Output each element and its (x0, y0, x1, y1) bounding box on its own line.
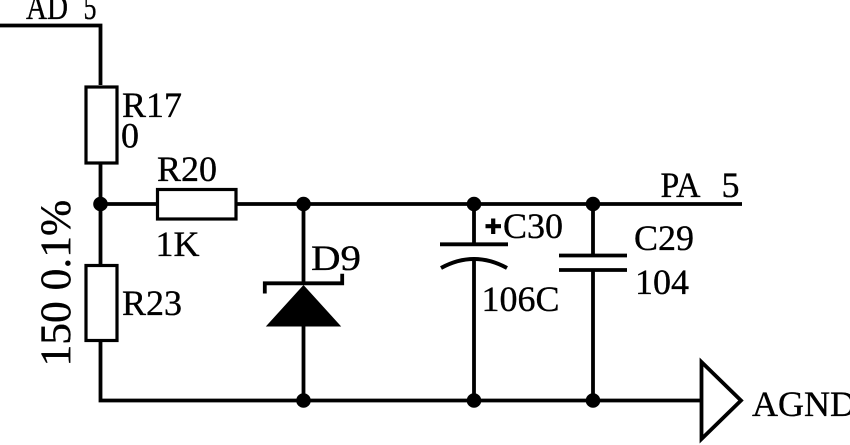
polarity mark + (486, 219, 502, 235)
wire (99, 163, 103, 204)
svg-text:5: 5 (84, 0, 97, 27)
svg-text:5: 5 (722, 165, 740, 205)
svg-text:1K: 1K (156, 224, 200, 264)
node E (296, 393, 311, 408)
resistor R23 (86, 266, 182, 341)
wire (101, 202, 158, 206)
node B (296, 197, 311, 212)
wire (472, 204, 476, 245)
capacitor C30 (440, 206, 563, 319)
svg-text:R20: R20 (157, 149, 217, 189)
wire (591, 270, 595, 401)
resistor R20 (156, 149, 237, 264)
wire (237, 202, 743, 206)
wire (302, 326, 306, 401)
ground AGND (702, 362, 850, 439)
node F (467, 393, 482, 408)
node AD_5 label (26, 0, 97, 27)
wire (0, 26, 101, 86)
wire (101, 340, 702, 401)
wire (591, 204, 595, 255)
node D (586, 197, 601, 212)
svg-text:PA: PA (661, 165, 701, 205)
wire (472, 259, 476, 401)
svg-text:106C: 106C (482, 279, 560, 319)
svg-text:D9: D9 (311, 238, 361, 278)
capacitor C29 (559, 218, 694, 302)
svg-text:AD: AD (26, 0, 68, 27)
svg-text:150 0.1%: 150 0.1% (32, 200, 80, 367)
svg-text:C30: C30 (503, 206, 563, 246)
svg-text:C29: C29 (634, 218, 694, 258)
node C (467, 197, 482, 212)
zener diode D9 (265, 238, 361, 327)
svg-text:R23: R23 (122, 283, 182, 323)
svg-text:0: 0 (121, 116, 139, 156)
node G (586, 393, 601, 408)
node PA_5 label (661, 165, 740, 205)
wire (302, 204, 306, 285)
svg-text:104: 104 (635, 262, 689, 302)
svg-text:AGND: AGND (752, 384, 850, 424)
resistor R17 (86, 85, 182, 163)
wire (99, 204, 103, 265)
node A (93, 197, 108, 212)
